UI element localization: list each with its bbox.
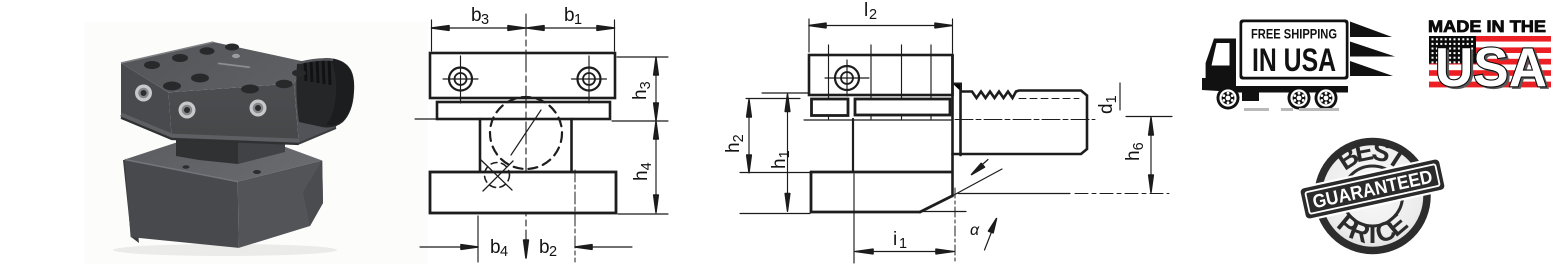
dimension b4/b2 (477, 216, 479, 262)
slot rect 2 (855, 99, 950, 115)
top block bottom chamfer highlight (121, 115, 299, 141)
front screws (135, 85, 152, 102)
dimension h6 (1126, 116, 1172, 118)
top-left edge highlight (121, 42, 214, 63)
svg-text:FREE SHIPPING: FREE SHIPPING (1251, 27, 1337, 42)
speed flag 3 (1350, 61, 1393, 76)
plate-left stub line (415, 118, 436, 120)
column left edge (479, 119, 482, 172)
upper flange body (809, 55, 953, 95)
speed flag 2 (1350, 42, 1395, 57)
svg-text:USA: USA (1435, 36, 1547, 98)
centerline vertical (525, 14, 527, 251)
svg-text:h: h (631, 170, 652, 181)
svg-text:i: i (893, 229, 897, 250)
dimension h3 (617, 56, 668, 58)
screw right (572, 56, 607, 103)
dimension h4 (655, 121, 657, 213)
shank ribs (305, 59, 330, 85)
middle column right face (238, 131, 285, 164)
wheel rear 2 (1315, 87, 1338, 110)
middle column front face (176, 131, 238, 164)
top block right lower face (294, 62, 340, 144)
svg-text:d: d (1096, 103, 1117, 114)
h2 bottom extension (740, 172, 810, 174)
stripes (1429, 36, 1551, 87)
svg-text:2: 2 (549, 244, 557, 260)
svg-text:b: b (564, 5, 575, 26)
svg-text:3: 3 (638, 81, 654, 89)
bottom block (430, 172, 616, 213)
svg-text:1: 1 (1104, 95, 1120, 103)
svg-text:α: α (970, 222, 980, 239)
bottom face thin extension (921, 211, 966, 213)
shank bottom joins body (953, 153, 962, 156)
cab (1202, 39, 1236, 93)
bottom block left sliver face (123, 160, 139, 243)
svg-text:1: 1 (899, 236, 907, 252)
body right edge (951, 55, 954, 196)
tick line 4 (930, 45, 932, 119)
inner circle (1343, 166, 1403, 226)
label d1 (1096, 95, 1120, 114)
svg-text:2: 2 (869, 7, 877, 23)
dimension l2 (809, 25, 952, 27)
diagonal thin continuation (952, 169, 1002, 196)
label h2 (723, 134, 747, 153)
svg-text:IN USA: IN USA (1252, 42, 1336, 78)
dimension h1 (762, 92, 808, 94)
svg-text:b: b (471, 5, 482, 26)
cross of small circle (481, 160, 512, 190)
alpha arrow 1 (974, 160, 989, 173)
big dashed circle (490, 97, 562, 169)
svg-text:1: 1 (574, 12, 582, 28)
dimension h2 (746, 98, 800, 100)
slash through circle (511, 110, 541, 155)
lower block left+bottom (811, 172, 920, 212)
top block front face (168, 83, 299, 143)
top block bottom edges (121, 118, 299, 144)
fuel tank (1242, 92, 1259, 101)
tick line 2 (870, 45, 872, 119)
top block top face (121, 42, 306, 92)
step at shank root (953, 84, 962, 92)
inner disc (1322, 145, 1424, 247)
clamp plate (437, 102, 610, 119)
sign white (1242, 22, 1346, 77)
bottom block right chamfer shade (303, 161, 323, 227)
bottom block top face (125, 141, 323, 182)
cab window (1212, 43, 1230, 66)
thread root dashed (1019, 98, 1079, 100)
svg-text:h: h (630, 89, 651, 100)
shank left edge (959, 90, 962, 155)
shank boss (296, 58, 354, 127)
svg-text:MADE IN THE: MADE IN THE (1428, 17, 1546, 36)
stars (1432, 38, 1474, 63)
tick line 1 (828, 45, 830, 119)
column right edge (570, 119, 573, 172)
wheel rear 1 (1288, 87, 1311, 110)
bottom block top-front edge highlight (125, 160, 238, 182)
svg-text:h: h (1123, 150, 1144, 161)
shank outline (961, 91, 1087, 155)
trailer box (1240, 20, 1349, 80)
label h6 (1123, 142, 1147, 161)
diagonal cut thick (920, 196, 952, 212)
h1 bottom extension (740, 213, 810, 215)
small dashed circle (485, 163, 510, 188)
svg-text:6: 6 (1131, 142, 1147, 150)
shank centerline (955, 119, 1095, 121)
centerline bottom arrow (524, 240, 529, 258)
svg-text:2: 2 (731, 134, 747, 142)
ground dashes (1244, 108, 1339, 111)
small holes bottom block (183, 165, 190, 169)
d1 leader line (1119, 83, 1121, 110)
label h1 (769, 150, 793, 169)
tick line 3 (901, 45, 903, 119)
svg-text:1: 1 (777, 150, 793, 158)
speed flag 1 (1350, 22, 1392, 38)
column left edge (852, 119, 854, 172)
slot rect 1 (812, 99, 849, 116)
thin line under slot (804, 119, 951, 121)
top face holes (144, 61, 160, 69)
dimension i1 (853, 174, 855, 263)
shank highlight (299, 59, 333, 63)
svg-text:3: 3 (481, 12, 489, 28)
wheel front (1217, 87, 1240, 110)
banner (1299, 158, 1447, 221)
shank end cap (326, 59, 354, 126)
shadow under part (113, 244, 337, 256)
lower block top edge (811, 171, 952, 174)
svg-text:l: l (864, 0, 868, 21)
bottom block right face (238, 161, 323, 248)
svg-text:4: 4 (639, 162, 655, 170)
photo backdrop (84, 22, 428, 264)
label h3 (630, 81, 654, 100)
chassis bar (1236, 86, 1348, 93)
canton (1429, 36, 1476, 64)
top block left face (121, 63, 172, 139)
etched text line (216, 62, 252, 69)
label h4 (631, 162, 655, 181)
outer ring (1318, 142, 1427, 251)
svg-text:h: h (723, 142, 744, 153)
svg-text:4: 4 (500, 244, 508, 260)
svg-text:h: h (769, 158, 790, 169)
svg-text:b: b (539, 237, 550, 258)
screw side view (825, 60, 869, 96)
alpha arrow 2 (985, 223, 996, 250)
svg-text:b: b (490, 237, 501, 258)
screw left (443, 56, 478, 103)
bottom block front face (125, 160, 239, 248)
top block (430, 53, 615, 98)
dimension b3/b1 line (432, 27, 615, 29)
